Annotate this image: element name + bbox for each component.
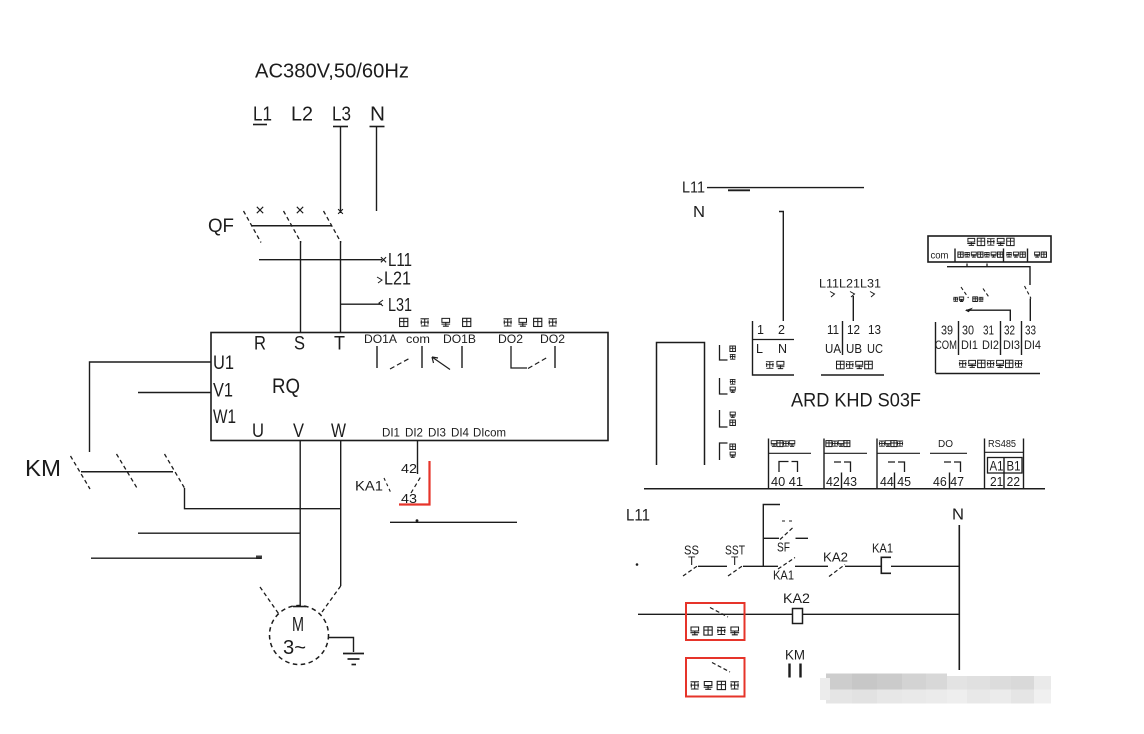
terminal 21 22: [990, 473, 1020, 489]
terminal N: [778, 342, 787, 356]
net label L2: [291, 104, 313, 126]
DI strip bottom line: [936, 373, 1041, 375]
svg-text:DI2: DI2: [982, 340, 999, 352]
terminal 12: [847, 323, 860, 337]
svg-text:11: 11: [827, 323, 839, 337]
ground symbol: [343, 654, 364, 665]
svg-text:L11: L11: [682, 180, 705, 197]
label 旁路输出: [691, 681, 739, 689]
motor label 3~: [283, 637, 306, 659]
group2 divider: [841, 473, 843, 489]
breaker QF pole 3: [324, 209, 343, 242]
RQ pin DI2: [405, 428, 423, 440]
terminal DI2: [982, 340, 999, 352]
relay contact label KA1: [355, 478, 391, 494]
indicator bracket 1: [720, 345, 736, 360]
wire phase S: [300, 241, 302, 333]
branch vertical: [763, 505, 780, 567]
contact SF: [763, 521, 808, 540]
net label AC380V,50/60Hz: [255, 61, 409, 83]
svg-text:RS485: RS485: [988, 439, 1016, 450]
breaker QF bus: [252, 225, 332, 227]
comm group label: [985, 439, 1024, 452]
net label L11: [388, 250, 412, 270]
terminal 2: [778, 323, 785, 337]
terminal UC: [867, 342, 883, 356]
motor lead tick: [293, 606, 306, 608]
contact input 1: [953, 287, 968, 302]
svg-text:31: 31: [983, 324, 994, 338]
contact input 3: [1025, 286, 1032, 299]
relay contact 46-47: [944, 462, 961, 472]
svg-text:AC380V,50/60Hz: AC380V,50/60Hz: [255, 61, 409, 83]
svg-text:DO: DO: [938, 439, 953, 450]
svg-text:L2: L2: [291, 104, 313, 126]
svg-text:21 22: 21 22: [990, 474, 1020, 489]
bypass output red box: [686, 658, 745, 697]
contact KA2 NC: [823, 550, 848, 577]
svg-text:UB: UB: [846, 342, 862, 356]
net label L11 (ARD): [682, 180, 705, 197]
RQ pin DO2: [498, 334, 523, 346]
soft starter RQ box: [211, 333, 608, 441]
net label L11L21L31: [819, 279, 881, 291]
svg-text:KM: KM: [785, 647, 805, 663]
wire tap L31: [341, 300, 384, 306]
comm group frame: [985, 439, 1024, 489]
net label N: [370, 104, 385, 126]
RQ pin DI3: [428, 428, 446, 440]
RQ pin U1: [213, 353, 234, 374]
svg-text:DI2: DI2: [405, 428, 423, 440]
junction tick: [636, 563, 639, 566]
input tiny label 1: [958, 252, 1003, 257]
sync hook 2: [850, 292, 855, 298]
svg-text:DI1: DI1: [961, 340, 978, 352]
sync hook 1: [830, 292, 835, 298]
svg-text:DI4: DI4: [1024, 340, 1042, 352]
svg-text:com: com: [406, 334, 430, 346]
wire W to motor dashed: [322, 586, 341, 612]
output group 3 label: [877, 441, 920, 454]
RQ pin DO1B: [443, 334, 476, 346]
breaker QF label: [208, 216, 234, 237]
ARD display box: [657, 343, 705, 466]
RQ designator: [272, 375, 300, 398]
svg-text:UC: UC: [867, 342, 883, 356]
terminal com label: [931, 250, 949, 262]
terminal DI1: [961, 340, 978, 352]
contact soft-start fault: [710, 608, 728, 618]
svg-text:39: 39: [941, 324, 953, 338]
terminal 30: [962, 324, 974, 338]
wire rung2: [638, 613, 959, 615]
svg-text:T: T: [731, 554, 739, 568]
DO2 stub L: [511, 346, 527, 368]
svg-text:42: 42: [401, 461, 417, 476]
output group 3 frame: [876, 439, 878, 489]
RQ pin DIcom: [473, 428, 506, 440]
wire L3 drop: [333, 127, 348, 214]
terminal 46 47: [933, 474, 964, 489]
output group 2 frame: [823, 439, 825, 489]
indicator bracket 4: [720, 443, 736, 460]
svg-text:UA: UA: [825, 342, 842, 356]
svg-text:S: S: [294, 334, 305, 355]
svg-text:46 47: 46 47: [933, 474, 964, 489]
wire DI4 drop: [1029, 299, 1031, 322]
svg-text:L3: L3: [332, 104, 351, 126]
terminal UA: [825, 342, 842, 356]
svg-text:DIcom: DIcom: [473, 428, 506, 440]
wire N bus: [958, 525, 960, 670]
terminal A1 B1 cells: [988, 458, 1023, 474]
label 软启故障: [690, 627, 739, 635]
svg-text:DO1B: DO1B: [443, 334, 476, 346]
wire DI3 arrow: [965, 308, 1010, 321]
label SF: [777, 540, 790, 555]
terminal 42: [401, 461, 417, 476]
svg-text:T: T: [334, 334, 345, 355]
breaker QF pole 1: [244, 207, 264, 243]
output group 1 label: [769, 441, 812, 454]
RQ pin DO2b: [540, 334, 565, 346]
output group 1 frame: [768, 439, 770, 489]
svg-text:DO2: DO2: [540, 334, 565, 346]
relay coil KA1: [872, 541, 893, 574]
DI strip left edge: [935, 322, 937, 373]
DO1B stub: [461, 346, 463, 368]
wire V to motor: [299, 441, 301, 608]
svg-text:DO1A: DO1A: [364, 334, 397, 346]
input tiny label 2: [1006, 252, 1025, 257]
relay contact 42-43: [834, 462, 851, 472]
KM pole 3: [165, 454, 185, 488]
motor M circle: [270, 606, 329, 665]
net label L11 (control): [626, 506, 650, 525]
net label L3: [332, 104, 351, 126]
net label L31: [388, 295, 412, 315]
terminal COM: [935, 340, 957, 352]
wire UB feed: [852, 296, 854, 321]
contact KA1 (seal-in): [778, 558, 795, 570]
svg-text:DI4: DI4: [451, 428, 470, 440]
label 同步电压 (sync voltage): [837, 361, 873, 369]
net label L21: [377, 269, 411, 289]
svg-text:2: 2: [778, 323, 785, 337]
breaker QF pole 2: [284, 207, 304, 243]
indicator bracket 2: [720, 378, 736, 394]
terminal DI3: [1003, 340, 1020, 352]
ARD designator ARD KHD S03F: [791, 391, 921, 412]
wire N to terminal 2: [779, 212, 783, 322]
svg-text:V1: V1: [213, 381, 233, 402]
svg-text:V: V: [293, 421, 304, 442]
wire input box down: [947, 264, 1030, 286]
RQ pin DO1A: [364, 334, 397, 346]
wire V1: [138, 392, 211, 394]
svg-text:B1: B1: [1007, 459, 1021, 474]
DO2 stub b: [554, 346, 556, 368]
pushbutton SST: [725, 543, 745, 577]
svg-text:N: N: [693, 204, 705, 221]
svg-text:32: 32: [1004, 324, 1015, 338]
contactor coil KM: [785, 647, 805, 678]
contactor KM label: [25, 455, 61, 481]
svg-text:W: W: [331, 421, 346, 442]
DI strip dividers: [959, 321, 1022, 355]
terminal L: [756, 342, 763, 356]
ARD bottom rail: [644, 488, 1045, 490]
wire: [845, 565, 881, 567]
indicator bracket 3: [720, 410, 736, 427]
svg-text:L11: L11: [626, 506, 650, 525]
KM pole 1: [71, 456, 91, 489]
output group 4 label: [930, 439, 967, 453]
contact KA1-42/43: [411, 476, 422, 494]
RQ pin W1: [213, 407, 236, 428]
svg-text:KM: KM: [25, 455, 61, 481]
sync divider: [842, 321, 844, 355]
wire: [795, 565, 828, 567]
contact DO2: [528, 358, 547, 369]
wire L11 rail: [707, 188, 864, 191]
wire KM pole3 out: [185, 488, 342, 509]
relay contact 44-45: [888, 462, 905, 472]
svg-text:U: U: [252, 421, 264, 442]
wire phase T: [340, 241, 342, 333]
relay coil KA2: [783, 590, 810, 624]
svg-text:N: N: [778, 342, 787, 356]
svg-text:L1: L1: [253, 104, 272, 126]
net label L1: [253, 104, 272, 126]
svg-text:L: L: [756, 342, 763, 356]
svg-text:3~: 3~: [283, 637, 306, 659]
svg-text:QF: QF: [208, 216, 234, 237]
terminal 31: [983, 324, 994, 338]
wire U1: [90, 362, 212, 452]
net label N (ARD): [693, 204, 705, 221]
svg-text:M: M: [292, 614, 304, 636]
terminal 1: [757, 323, 764, 337]
svg-text:A1: A1: [990, 459, 1004, 474]
output group 2 label: [824, 441, 867, 454]
wire stub: [390, 519, 517, 522]
RQ pin W: [331, 421, 346, 442]
svg-text:L11: L11: [388, 250, 412, 270]
wire W down: [340, 441, 342, 587]
contact DO1B: [432, 357, 450, 370]
svg-text:KA2: KA2: [783, 590, 810, 606]
contact input 2: [973, 289, 990, 302]
wire: [743, 565, 778, 567]
svg-text:40 41: 40 41: [771, 474, 803, 489]
terminal 43: [401, 491, 417, 506]
svg-text:DI3: DI3: [428, 428, 446, 440]
RQ pin T: [334, 334, 345, 355]
wire U to motor dashed: [260, 587, 279, 614]
svg-text:W1: W1: [213, 407, 236, 428]
group3 divider: [894, 473, 896, 489]
RQ pin DI4: [451, 428, 470, 440]
svg-text:COM: COM: [935, 340, 957, 352]
contact DO1A: [390, 358, 411, 370]
sync group underline: [821, 374, 884, 376]
terminal 32: [1004, 324, 1015, 338]
label 故障输出 (fault output): [400, 318, 471, 326]
terminal 39: [941, 324, 953, 338]
input tiny label 3: [1034, 252, 1046, 257]
wire tap L11: [259, 257, 386, 262]
svg-text:DI3: DI3: [1003, 340, 1020, 352]
contact bypass output: [712, 663, 730, 673]
svg-text:U1: U1: [213, 353, 234, 374]
label KA1: [773, 568, 794, 583]
RQ pin U: [252, 421, 264, 442]
svg-text:R: R: [254, 334, 266, 355]
wire KM pole1 out: [91, 556, 262, 560]
pushbutton SS: [683, 543, 699, 577]
com stub: [421, 346, 423, 368]
motor ground lead: [329, 638, 354, 653]
wire: [891, 565, 959, 567]
red highlight bracket: [399, 461, 430, 505]
wire N drop: [370, 127, 385, 212]
RQ pin com: [406, 334, 430, 346]
terminal DI4: [1024, 340, 1042, 352]
KM pole 2: [117, 454, 138, 488]
wire: [698, 565, 727, 567]
label 电源 (power): [766, 361, 785, 368]
fault input red box: [686, 603, 745, 640]
terminal 44 45: [880, 474, 911, 489]
relay contact 40-41: [779, 462, 798, 473]
svg-text:KA1: KA1: [773, 568, 794, 583]
svg-text:ARD KHD S03F: ARD KHD S03F: [791, 391, 921, 412]
svg-text:DI1: DI1: [382, 428, 400, 440]
svg-text:KA1: KA1: [872, 541, 893, 556]
terminal 33: [1025, 324, 1036, 338]
RQ pin S: [294, 334, 305, 355]
group4 divider: [949, 473, 951, 489]
contactor KM bus: [81, 471, 173, 473]
svg-text:44 45: 44 45: [880, 474, 911, 489]
watermark: [820, 674, 1051, 704]
net label N (control): [952, 507, 964, 524]
svg-text:13: 13: [868, 323, 881, 337]
terminal UB: [846, 342, 862, 356]
label 开关量信号输入: [959, 360, 1023, 367]
terminal 13: [868, 323, 881, 337]
svg-text:KA2: KA2: [823, 550, 848, 565]
RQ pin DI1: [382, 428, 400, 440]
RQ pin V: [293, 421, 304, 442]
svg-text:SF: SF: [777, 540, 790, 555]
svg-text:N: N: [370, 104, 385, 126]
svg-text:N: N: [952, 507, 964, 524]
terminal group 电源 frame: [753, 321, 795, 375]
svg-text:L11L21L31: L11L21L31: [819, 279, 881, 291]
svg-text:DO2: DO2: [498, 334, 523, 346]
terminal 11: [827, 323, 839, 337]
svg-text:L21: L21: [384, 269, 411, 289]
svg-text:12: 12: [847, 323, 860, 337]
motor label M: [292, 614, 304, 636]
RQ pin R: [254, 334, 266, 355]
svg-text:T: T: [688, 554, 696, 568]
svg-text:30: 30: [962, 324, 974, 338]
svg-text:RQ: RQ: [272, 375, 300, 398]
svg-text:com: com: [931, 250, 949, 262]
terminal 42 43: [826, 474, 857, 489]
input box dividers: [955, 249, 1028, 263]
switch input box 开关量输入: [928, 236, 1051, 262]
DO1A stub: [376, 346, 378, 368]
RQ pin V1: [213, 381, 233, 402]
svg-text:33: 33: [1025, 324, 1036, 338]
terminal 40 41: [771, 474, 803, 489]
wire KM pole2 out: [138, 532, 300, 534]
label 旁路输出 (bypass output): [504, 318, 557, 326]
svg-text:L31: L31: [388, 295, 412, 315]
wire DI2 drop: [417, 441, 419, 475]
sync hook 3: [870, 292, 875, 298]
svg-text:42 43: 42 43: [826, 474, 857, 489]
svg-text:KA1: KA1: [355, 478, 383, 494]
svg-text:1: 1: [757, 323, 764, 337]
